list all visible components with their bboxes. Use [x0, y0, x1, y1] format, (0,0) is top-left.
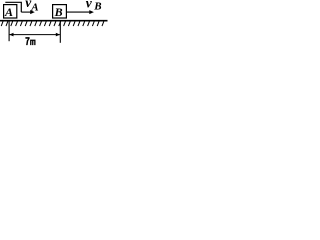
ground [0, 20, 108, 22]
dimension extension line right [59, 21, 61, 43]
velocity arrow vA [21, 10, 35, 14]
velocity arrow vB [67, 10, 94, 14]
label 7m [25, 37, 35, 45]
block A [4, 5, 17, 18]
label vB [86, 0, 102, 13]
svg-text:A: A [30, 1, 38, 13]
block B [53, 5, 67, 18]
svg-text:B: B [54, 5, 63, 19]
svg-text:B: B [93, 1, 101, 13]
ground hatching [1, 21, 104, 26]
label vA [25, 0, 38, 13]
dimension line with arrows [9, 33, 60, 37]
svg-text:A: A [4, 5, 13, 19]
hook line above block A [5, 2, 21, 12]
svg-text:v: v [86, 0, 93, 10]
dimension extension line left [8, 22, 10, 42]
